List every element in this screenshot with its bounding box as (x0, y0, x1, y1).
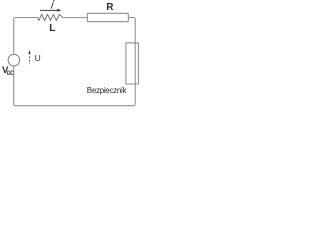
label L (49, 23, 55, 34)
label R (106, 2, 113, 13)
label Bezpiecznik (87, 86, 126, 95)
label U (35, 53, 41, 63)
current arrow i head (57, 9, 61, 12)
resistor R body (87, 13, 128, 21)
label VDC (2, 65, 16, 77)
current arrow i shaft (40, 9, 58, 11)
label i (0, 0, 150, 112)
source VDC circle (8, 54, 20, 66)
wire resistor to top-right corner then down (128, 18, 135, 43)
wire left vertical + top horizontal (14, 18, 38, 55)
voltage arrow U shaft (dashed) (29, 53, 31, 65)
wire through fuse down to bottom-right corner (14, 43, 136, 106)
voltage arrow U head (28, 50, 30, 53)
wire zigzag to resistor (63, 17, 88, 19)
fuse body (Bezpiecznik) (126, 43, 138, 84)
inductor L zigzag (37, 14, 63, 20)
